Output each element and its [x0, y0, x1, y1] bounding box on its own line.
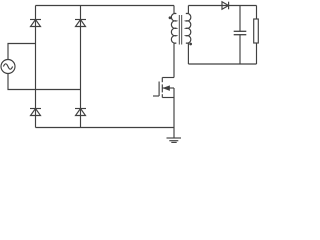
AC voltage source V1 [1, 60, 15, 74]
MOSFET M1 gate lead [153, 95, 159, 97]
wire secondary right side [256, 6, 258, 20]
MOSFET M1 channel segments [161, 78, 163, 98]
diode D3 (bridge, bottom left) [30, 109, 41, 116]
wire bridge left rail [35, 6, 37, 128]
capacitor C1 [234, 31, 247, 34]
wire AC source top lead [8, 44, 36, 60]
transformer T1 primary winding L1 [171, 6, 176, 78]
diode D1 (bridge, top left) [30, 20, 41, 27]
wire top rail [36, 5, 175, 7]
wire secondary top [188, 5, 256, 7]
diode D4 (bridge, bottom right) [75, 109, 86, 116]
wire secondary bottom [188, 63, 256, 65]
wire bridge right rail [80, 6, 82, 128]
resistor R1 (load) [254, 19, 259, 43]
transformer T1 secondary polarity dot [189, 43, 192, 46]
wire resistor bottom lead [256, 43, 258, 64]
wire source to ground [173, 98, 175, 139]
capacitor C1 top lead [239, 6, 241, 32]
diode D5 (output rectifier) [222, 2, 229, 10]
MOSFET M1 source lead [162, 97, 174, 99]
MOSFET M1 drain lead [162, 77, 174, 79]
transformer T1 secondary winding L2 [186, 6, 191, 65]
MOSFET M1 gate bar [158, 82, 160, 97]
transformer T1 primary polarity dot [169, 16, 172, 19]
ground symbol [167, 138, 182, 142]
wire bottom rail [36, 127, 175, 129]
MOSFET M1 source side vertical [173, 88, 175, 98]
wire AC source bottom lead [8, 73, 81, 89]
capacitor C1 bottom lead [239, 35, 241, 64]
MOSFET M1 body connection with arrow [162, 86, 174, 90]
diode D2 (bridge, top right) [75, 20, 86, 27]
transformer T1 core [179, 15, 181, 45]
